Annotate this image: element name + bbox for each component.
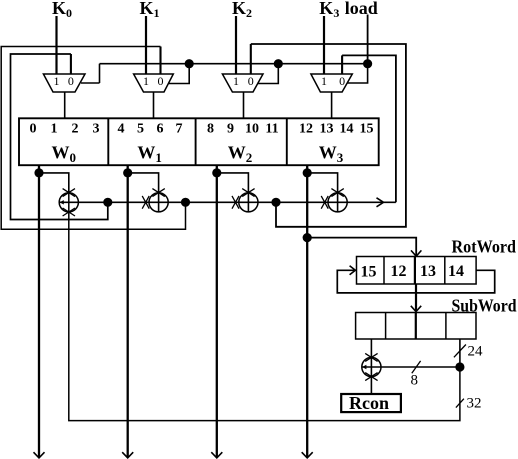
svg-text:14: 14 bbox=[448, 263, 464, 280]
svg-text:Rcon: Rcon bbox=[349, 393, 389, 413]
svg-text:2: 2 bbox=[72, 122, 79, 137]
svg-text:0: 0 bbox=[30, 122, 37, 137]
svg-text:14: 14 bbox=[340, 122, 354, 137]
svg-text:0: 0 bbox=[339, 74, 345, 88]
svg-text:7: 7 bbox=[176, 122, 183, 137]
svg-text:RotWord: RotWord bbox=[452, 237, 517, 257]
svg-text:15: 15 bbox=[361, 264, 377, 281]
svg-text:SubWord: SubWord bbox=[452, 296, 517, 316]
svg-text:5: 5 bbox=[137, 122, 144, 137]
svg-text:8: 8 bbox=[411, 373, 419, 389]
svg-text:1: 1 bbox=[233, 74, 239, 88]
svg-text:1: 1 bbox=[54, 74, 60, 88]
svg-text:8: 8 bbox=[207, 122, 214, 137]
svg-text:1: 1 bbox=[143, 74, 149, 88]
svg-text:12: 12 bbox=[299, 122, 313, 137]
svg-text:11: 11 bbox=[265, 122, 278, 137]
svg-text:0: 0 bbox=[248, 74, 254, 88]
svg-text:13: 13 bbox=[320, 122, 334, 137]
svg-text:15: 15 bbox=[360, 122, 374, 137]
svg-text:0: 0 bbox=[158, 74, 164, 88]
svg-text:6: 6 bbox=[157, 122, 164, 137]
svg-text:load: load bbox=[345, 0, 378, 18]
svg-text:0: 0 bbox=[68, 74, 74, 88]
svg-text:10: 10 bbox=[245, 122, 259, 137]
svg-text:3: 3 bbox=[93, 122, 100, 137]
svg-text:1: 1 bbox=[51, 122, 58, 137]
svg-text:4: 4 bbox=[118, 122, 125, 137]
svg-text:9: 9 bbox=[227, 122, 234, 137]
svg-text:32: 32 bbox=[467, 396, 482, 412]
svg-text:13: 13 bbox=[420, 263, 436, 280]
svg-text:12: 12 bbox=[391, 263, 407, 280]
svg-text:1: 1 bbox=[321, 74, 327, 88]
svg-text:24: 24 bbox=[468, 344, 484, 360]
